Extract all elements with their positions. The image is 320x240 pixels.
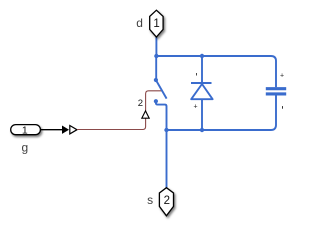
svg-text:d: d: [136, 16, 143, 30]
switch blade: [156, 80, 167, 99]
node: switch pivot: [154, 78, 158, 82]
switch upper contact wire: [155, 56, 157, 80]
port g (inport 1, stadium): [11, 125, 41, 135]
wire: bottom rail to capacitor: [167, 95, 277, 130]
wire: bottom junction to s port: [166, 130, 168, 188]
label: capacitor minus: [282, 106, 283, 109]
wire: black signal line from g port: [40, 129, 62, 131]
wire: top horizontal rail to capacitor: [156, 56, 276, 87]
svg-text:s: s: [147, 193, 153, 207]
node: switch lower contact: [154, 99, 158, 103]
label: diode minus: [195, 73, 198, 76]
arrowhead (open) input marker: [70, 126, 77, 134]
wire: switch lower contact jog down to bottom rail: [156, 101, 167, 130]
svg-text:g: g: [22, 141, 29, 155]
diode D1 top lead: [201, 56, 203, 82]
node: junction diode top: [200, 54, 204, 58]
wire: physical signal (maroon) from gate arrow to switch blade: [77, 91, 162, 130]
capacitor C bottom plate: [266, 92, 286, 95]
svg-text:2: 2: [164, 195, 170, 207]
svg-text:1: 1: [22, 124, 28, 136]
diode cathode bar: [191, 82, 212, 84]
node: junction bottom left: [164, 128, 168, 132]
node: junction diode bottom: [200, 128, 204, 132]
svg-text:+: +: [280, 73, 284, 80]
control port triangle on gate line: [142, 111, 149, 118]
port s (hexagon 2): [159, 188, 173, 216]
diode bottom lead: [201, 99, 203, 130]
port d (hexagon 1): [150, 10, 163, 37]
arrowhead (filled) on g signal: [62, 126, 69, 134]
diode triangle: [191, 84, 212, 99]
wire: d port to top junction (blue): [155, 37, 157, 56]
svg-text:+: +: [194, 103, 198, 110]
svg-text:1: 1: [153, 18, 159, 30]
capacitor C top plate: [266, 87, 286, 90]
node: junction at d: [154, 54, 158, 58]
svg-text:2: 2: [138, 98, 143, 109]
